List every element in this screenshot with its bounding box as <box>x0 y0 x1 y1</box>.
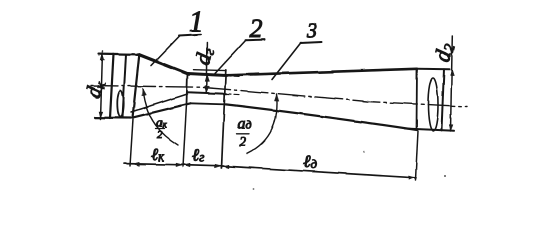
svg-text:2: 2 <box>240 134 247 149</box>
outlet bottom edge <box>405 129 454 131</box>
fraction bar alpha_d <box>237 133 249 135</box>
dimension line l_d <box>222 166 416 178</box>
fraction bar alpha_k <box>156 128 165 130</box>
throat bottom bore edge <box>188 92 227 94</box>
arrow d_2 top <box>450 70 454 76</box>
svg-text:dг: dг <box>190 45 218 67</box>
dimension line l_k <box>125 164 184 165</box>
dimension line d_2 <box>451 36 453 131</box>
inlet top edge <box>99 52 140 55</box>
svg-text:aк: aк <box>156 115 168 130</box>
centerline (dash-dot axis) <box>91 86 467 107</box>
outlet right face <box>442 69 445 130</box>
inlet inner edge vertical <box>123 54 127 118</box>
right angle arc <box>247 94 277 154</box>
left angle arc arrowhead <box>142 89 146 96</box>
throat flange vertical right / extension <box>222 70 226 168</box>
underline label 1 <box>179 34 201 35</box>
throat bottom dashes continuation <box>226 93 240 96</box>
arrow l_g left <box>184 163 190 166</box>
underline label 3 <box>301 42 322 43</box>
diffuser top edge <box>226 69 417 76</box>
throat top edge <box>188 74 227 76</box>
arrow d_g bottom <box>205 86 209 93</box>
converging cone bottom outer edge <box>132 103 191 118</box>
cone start vertical <box>133 55 140 118</box>
dimension line l_g <box>183 165 222 166</box>
diffuser bottom edge <box>226 104 417 130</box>
throat outer top edge <box>193 69 226 72</box>
converging cone top edge <box>139 55 189 74</box>
svg-text:3: 3 <box>306 19 318 43</box>
dimension line d_g <box>205 43 208 94</box>
arrow l_d right <box>409 176 415 180</box>
arrow d_k bottom <box>99 112 103 118</box>
svg-text:2: 2 <box>250 14 263 43</box>
arrow d_2 bottom <box>449 125 453 131</box>
right angle arc arrowhead <box>274 94 278 101</box>
svg-text:d2: d2 <box>429 40 459 65</box>
svg-text:aд: aд <box>238 116 252 133</box>
underline label 2 <box>246 39 265 42</box>
leader line part 2 <box>215 40 246 74</box>
left angle arc <box>143 89 179 146</box>
inlet bore ellipse <box>117 91 123 117</box>
outlet left face <box>416 69 419 130</box>
svg-text:ℓд: ℓд <box>303 152 318 172</box>
arrow l_k right <box>176 163 182 166</box>
outlet bore ellipse <box>428 78 438 131</box>
inlet bottom edge <box>95 116 131 119</box>
converging cone bottom inner bore edge <box>131 94 188 112</box>
svg-text:ℓк: ℓк <box>151 145 165 164</box>
throat outer bottom edge <box>191 103 227 104</box>
leader line part 1 <box>151 36 180 66</box>
svg-text:2: 2 <box>157 129 163 141</box>
arrow l_g right <box>215 164 221 168</box>
throat flange vertical left <box>187 74 188 104</box>
extension line at cone start <box>130 119 133 166</box>
arrow l_k left <box>133 162 139 166</box>
arrow l_d left <box>223 165 229 168</box>
dimension line d_k <box>101 51 103 119</box>
arrow d_g top <box>205 75 209 82</box>
svg-text:ℓг: ℓг <box>192 146 204 165</box>
throat top dashes continuation <box>226 75 241 78</box>
extension line at diffuser end <box>416 131 419 180</box>
svg-text:dк: dк <box>81 77 110 100</box>
svg-text:1: 1 <box>189 6 204 38</box>
arrow d_k top <box>101 54 105 60</box>
scan speckles <box>444 175 446 177</box>
outlet top edge <box>417 68 450 71</box>
leader line part 3 <box>272 43 301 80</box>
extension line at throat start <box>183 104 187 167</box>
inlet left face <box>110 54 114 118</box>
